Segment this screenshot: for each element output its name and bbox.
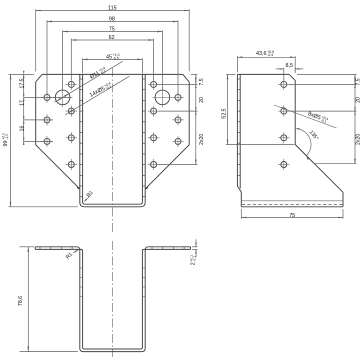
svg-text:7,5: 7,5 bbox=[199, 78, 205, 85]
svg-text:16: 16 bbox=[19, 126, 25, 132]
front channel bottom edges bbox=[84, 206, 140, 208]
label O11 with leader bbox=[55, 61, 123, 102]
svg-text:75: 75 bbox=[109, 27, 115, 33]
svg-text:99: 99 bbox=[3, 141, 9, 147]
bottom view stitch marks bbox=[39, 247, 41, 250]
dim 45 +1,0/-0,5 bbox=[82, 58, 84, 73]
left chain dim line 17,5 / 17 / 16 bbox=[23, 74, 25, 143]
dim 75 bottom bbox=[240, 209, 242, 219]
svg-text:17,5: 17,5 bbox=[19, 78, 25, 88]
bottom view bottom edges bbox=[83, 351, 141, 353]
bottom view right wing bbox=[190, 247, 192, 250]
front holes: 14x O5 small holes bbox=[44, 94, 50, 100]
svg-text:45: 45 bbox=[106, 54, 112, 60]
dim 43,6 +0,9/-0,4 bbox=[236, 56, 238, 72]
dim 75 bbox=[62, 30, 64, 89]
dim 98 bbox=[46, 20, 48, 94]
label 8xO5 with leader bbox=[274, 105, 337, 128]
svg-text:2x20: 2x20 bbox=[356, 134, 360, 145]
side right chain dim 7,5 / 20 / 2x20 bbox=[297, 73, 357, 75]
svg-text:20: 20 bbox=[356, 97, 360, 103]
front channel wall left (bend double line) bbox=[80, 74, 85, 206]
svg-text:8,5: 8,5 bbox=[286, 63, 294, 69]
label R1 bottom with leader bbox=[73, 250, 78, 252]
front view outline right flange bbox=[145, 74, 189, 188]
side view outline bbox=[237, 73, 289, 75]
svg-text:115: 115 bbox=[108, 5, 117, 11]
dim 8,5 bbox=[283, 68, 285, 81]
svg-text:98: 98 bbox=[109, 17, 115, 23]
svg-text:78,6: 78,6 bbox=[18, 296, 24, 306]
svg-text:20: 20 bbox=[199, 97, 205, 103]
dim 135 degrees arc bbox=[295, 129, 311, 156]
svg-text:17: 17 bbox=[19, 100, 25, 106]
side bend stitch marks bbox=[237, 78, 240, 80]
front right chain dim 7,5 / 20 / 2x20 bbox=[191, 73, 198, 75]
svg-text:62: 62 bbox=[109, 35, 115, 41]
front view top edge bbox=[42, 73, 183, 75]
svg-text:2x20: 2x20 bbox=[199, 134, 205, 145]
dim 62 bbox=[70, 39, 72, 80]
svg-text:-1,0: -1,0 bbox=[5, 134, 9, 140]
svg-text:52,5: 52,5 bbox=[222, 108, 228, 118]
svg-text:-0,4: -0,4 bbox=[267, 53, 273, 57]
label R1 front with leader bbox=[85, 195, 91, 201]
front bend stitch marks bbox=[80, 78, 83, 80]
dim 115 top bbox=[35, 9, 37, 71]
svg-text:43,6: 43,6 bbox=[256, 51, 267, 57]
front view centerline bbox=[112, 68, 114, 232]
front view outline left flange bbox=[36, 74, 80, 188]
side holes 8xO5 bbox=[281, 81, 287, 87]
dim 2 +0,1 wing thickness bbox=[192, 246, 198, 248]
svg-text:2: 2 bbox=[191, 262, 197, 265]
svg-text:-0,5: -0,5 bbox=[113, 56, 119, 60]
dim 78,6 bbox=[20, 246, 35, 248]
dim 52,5 bbox=[226, 73, 235, 75]
svg-text:-0,1: -0,1 bbox=[193, 256, 197, 262]
svg-text:75: 75 bbox=[289, 213, 295, 219]
svg-text:7,5: 7,5 bbox=[356, 78, 360, 85]
front channel wall right (bend double line) bbox=[141, 74, 146, 206]
bottom view left wing bbox=[34, 247, 36, 250]
side bottom strip bbox=[241, 200, 343, 202]
side view left bend double line bbox=[237, 74, 241, 206]
diagonal-bend junction marks bbox=[76, 186, 79, 189]
front big holes O11 bbox=[55, 90, 70, 105]
label 14xO5 with leader bbox=[65, 76, 130, 115]
bottom view centerline bbox=[112, 241, 114, 357]
dim 99 +2,0/-1,0 left bbox=[9, 73, 34, 75]
